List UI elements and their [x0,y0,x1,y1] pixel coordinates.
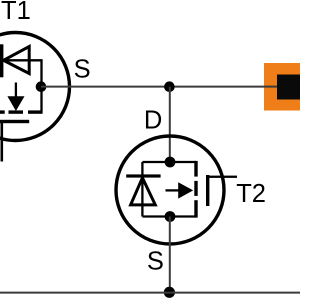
svg-text:S: S [74,55,91,83]
T1 gate lead [1,121,4,162]
svg-text:T1: T1 [1,0,31,25]
svg-text:T2: T2 [236,180,266,208]
node: junction dot above T2 [164,81,175,92]
wire bottom rail [0,292,300,294]
wire diode lead T1 [0,60,42,111]
connector pad (orange) [264,63,300,111]
diode D(T2) cathode bar [126,174,160,177]
node: T2 drain junction dot [165,157,176,168]
diode D(T1) cathode bar [0,44,3,77]
node: bottom junction dot [164,287,175,298]
T2 channel bar (3 segments) [194,161,197,177]
wire T2 source down [169,217,171,293]
wire S of T1 to connector [41,86,277,88]
diode D(T2) anode triangle [131,178,156,205]
node S of T1: junction dot [36,81,47,92]
transistor T2 circle [116,136,224,244]
wire T2 source rail [142,215,196,217]
diode D(T1) anode triangle [4,47,30,74]
connector pin (black) [277,75,300,100]
T2 gate bar [206,175,209,206]
transistor T1 circle [0,33,70,141]
wire down to T2 drain [169,87,171,162]
wire T2 drain rail [142,161,196,163]
T1 channel bar (3 segments) [0,110,5,113]
substrate arrow T1 [15,83,17,99]
wire over pad [264,86,277,88]
T1 gate bar [0,120,29,123]
T2 gate lead [208,176,237,178]
diode D(T2) lead [141,162,143,217]
svg-text:S: S [147,248,164,276]
svg-text:D: D [144,107,162,135]
substrate arrow T2 [166,189,180,191]
node: T2 source junction dot [165,211,176,222]
